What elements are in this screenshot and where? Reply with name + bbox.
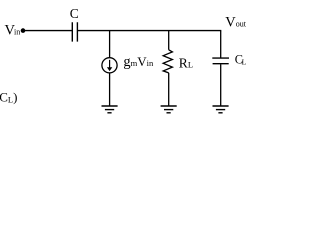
resistor RL zigzag <box>163 50 172 73</box>
wire Vout corner down to capacitor CL <box>220 31 222 58</box>
ground under current source <box>102 106 118 113</box>
wire RL to ground <box>168 73 170 106</box>
current source gmVin circle <box>102 58 117 73</box>
wire Vin to capacitor C <box>23 30 72 32</box>
ground under CL <box>213 106 229 113</box>
wire current source to ground <box>109 73 111 106</box>
wire junction down to resistor RL <box>168 31 170 50</box>
ground under RL <box>161 106 177 113</box>
svg-text:L: L <box>242 58 247 67</box>
capacitor CL <box>212 58 229 64</box>
svg-text:C: C <box>70 6 79 21</box>
wire CL to ground <box>220 64 222 105</box>
node Vin dot <box>21 28 26 33</box>
capacitor C <box>72 22 77 41</box>
current source arrow <box>107 60 112 71</box>
wire junction down to current source <box>109 31 111 58</box>
wire top rail: C to Vout corner <box>78 30 222 32</box>
